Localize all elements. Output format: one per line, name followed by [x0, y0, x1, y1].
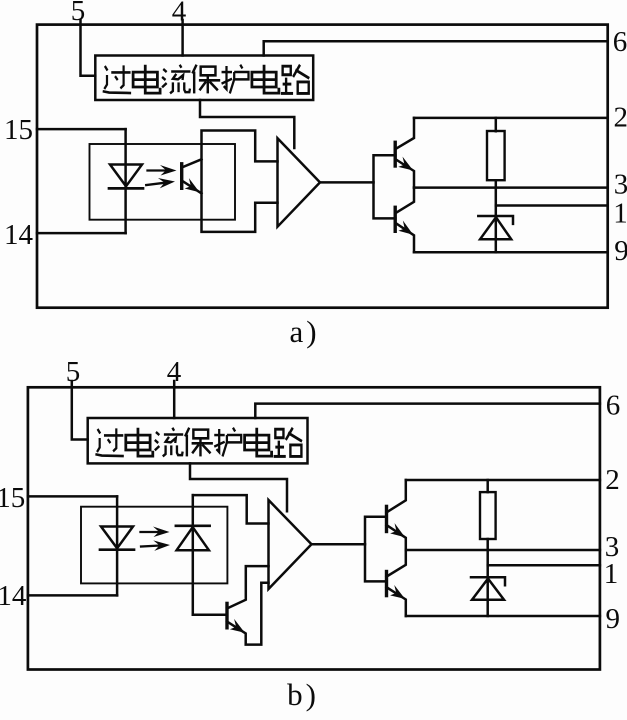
- Q5 collector: [387, 480, 406, 512]
- LED D1: [110, 165, 142, 187]
- pin 4 wire: [181, 20, 184, 56]
- svg-text:2: 2: [605, 464, 620, 496]
- light arrow 1 (b): [141, 527, 170, 538]
- svg-text:b): b): [287, 677, 319, 712]
- resistor R1: [487, 131, 505, 180]
- pin 1 rail (b): [488, 564, 600, 567]
- pin 2 rail (b): [406, 479, 600, 482]
- pin 9 rail (b): [406, 615, 600, 618]
- R1 leads: [495, 118, 498, 216]
- phototransistor Q1 base bar: [180, 164, 183, 189]
- Q5 emitter: [387, 525, 406, 550]
- optocoupler box (a): [90, 144, 236, 220]
- svg-text:15: 15: [0, 482, 25, 514]
- light arrow 2 (b): [141, 540, 171, 552]
- svg-text:4: 4: [167, 356, 182, 388]
- light arrow 1: [148, 165, 177, 176]
- amplifier output wire: [320, 181, 374, 184]
- Q3 emitter: [395, 223, 414, 253]
- pin 15 wire: [37, 128, 126, 131]
- amplifier output wire (b): [312, 543, 366, 546]
- svg-text:5: 5: [71, 0, 86, 27]
- svg-text:14: 14: [4, 219, 34, 251]
- resistor R2: [480, 492, 496, 539]
- transistor Q4 base bar: [225, 603, 228, 627]
- pin 14 wire: [37, 232, 126, 235]
- IC outline box (b): [28, 387, 600, 669]
- pin 3 rail: [414, 186, 608, 189]
- svg-text:6: 6: [613, 26, 627, 58]
- wire: base line: [193, 614, 226, 617]
- light arrow 2: [146, 176, 176, 190]
- svg-text:2: 2: [613, 102, 627, 134]
- Q6 collector: [387, 550, 406, 577]
- LED lead wire (b): [116, 496, 119, 595]
- svg-text:14: 14: [0, 580, 27, 612]
- amplifier A2: [269, 500, 312, 589]
- transistor Q3 base bar: [394, 207, 397, 231]
- pin 6 wire: [264, 41, 608, 55]
- svg-text:5: 5: [66, 356, 81, 388]
- svg-text:a): a): [289, 314, 319, 349]
- pin 3 rail (b): [406, 549, 600, 552]
- wire: photodiode to amplifier top input: [193, 495, 269, 523]
- photodiode VD3: [176, 524, 210, 527]
- pin 6 wire (b): [255, 404, 600, 418]
- svg-text:4: 4: [172, 0, 187, 28]
- pin 15 wire (b): [28, 495, 117, 498]
- amplifier A1: [278, 138, 321, 227]
- phototransistor emitter: [182, 181, 202, 194]
- Q2 collector: [395, 118, 414, 149]
- overcurrent protection box U2: [88, 418, 308, 463]
- transistor Q6 base bar: [385, 572, 388, 596]
- pin 5 wire: [81, 20, 96, 76]
- pin 5 wire (b): [72, 381, 88, 440]
- Q2 emitter: [395, 159, 414, 188]
- IC outline box (a): [37, 25, 608, 308]
- base bracket wire (b): [365, 517, 386, 582]
- pin 4 wire (b): [173, 381, 176, 418]
- transistor Q5 base bar: [385, 506, 388, 531]
- svg-text:9: 9: [614, 235, 627, 267]
- svg-text:15: 15: [4, 114, 33, 146]
- receiver loop wire: [202, 131, 278, 232]
- pin 14 wire (b): [28, 594, 117, 597]
- zener diode VD2: [471, 577, 505, 585]
- overcurrent protection box U1: [95, 56, 313, 101]
- pin 1 rail: [496, 204, 608, 207]
- phototransistor collector: [182, 159, 202, 167]
- Q4 emitter: [227, 583, 269, 645]
- svg-text:6: 6: [606, 390, 621, 422]
- Q3 collector: [395, 188, 414, 214]
- base bracket wire: [374, 155, 396, 218]
- Q4 collector: [227, 566, 269, 608]
- LED lead wire: [124, 129, 127, 233]
- svg-text:9: 9: [606, 603, 621, 635]
- transistor Q2 base bar: [394, 142, 397, 166]
- wire: protection box to amplifier: [200, 100, 294, 148]
- Q6 emitter: [387, 587, 406, 616]
- svg-text:1: 1: [604, 558, 619, 590]
- R2 leads: [486, 480, 489, 577]
- pin 9 rail: [414, 251, 608, 254]
- svg-text:3: 3: [614, 169, 627, 201]
- optocoupler box (b): [81, 507, 227, 584]
- LED D2: [101, 527, 133, 549]
- photodiode leads: [192, 495, 195, 615]
- pin 2 rail: [414, 117, 608, 120]
- zener diode VD1: [478, 216, 513, 224]
- wire: protection box to amplifier (b): [190, 463, 287, 511]
- svg-text:1: 1: [613, 198, 627, 230]
